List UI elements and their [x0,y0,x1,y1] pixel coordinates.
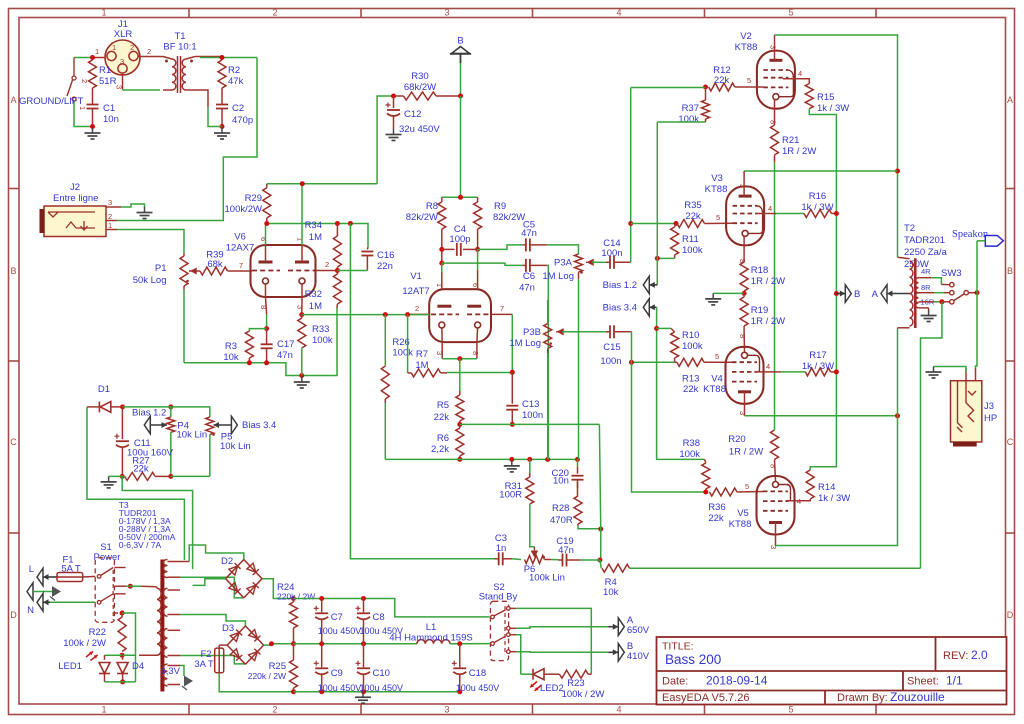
svg-text:1M Log: 1M Log [542,271,574,282]
svg-text:0-6,3V / 7A: 0-6,3V / 7A [119,540,162,550]
svg-text:8: 8 [738,334,747,338]
svg-text:Zouzouille: Zouzouille [890,690,945,704]
svg-text:Speakon: Speakon [952,229,989,240]
svg-text:N: N [27,605,34,616]
svg-text:2: 2 [147,47,151,56]
svg-text:R19: R19 [751,305,768,316]
svg-text:XLR: XLR [114,29,133,40]
svg-text:T1: T1 [174,31,185,42]
svg-text:V6: V6 [234,232,246,243]
svg-text:R32: R32 [305,289,322,300]
svg-text:Bias 3.4: Bias 3.4 [242,420,276,431]
svg-text:470R: 470R [550,515,573,526]
svg-text:100u 450V: 100u 450V [318,626,362,636]
svg-text:A: A [872,289,879,300]
svg-text:47n: 47n [519,283,535,294]
svg-text:C17: C17 [277,339,294,350]
svg-text:12AX7: 12AX7 [226,243,255,254]
svg-text:100R: 100R [499,490,522,501]
svg-text:B: B [854,289,860,300]
svg-text:8R: 8R [921,283,931,292]
svg-text:TADR201: TADR201 [904,235,945,246]
svg-text:68k: 68k [207,259,223,270]
svg-text:D1: D1 [98,384,110,395]
svg-text:R2: R2 [228,65,240,76]
svg-text:L1: L1 [426,622,437,633]
svg-text:2,2k: 2,2k [431,444,449,455]
svg-text:100k: 100k [392,348,413,359]
svg-text:6,3V: 6,3V [160,666,180,677]
svg-text:100u 450V: 100u 450V [456,683,500,693]
svg-text:V4: V4 [711,374,723,385]
svg-text:HP: HP [984,413,997,424]
svg-text:R13: R13 [682,374,699,385]
svg-text:D3: D3 [222,623,234,634]
svg-text:R37: R37 [682,103,699,114]
svg-text:8: 8 [769,120,778,124]
svg-text:R21: R21 [782,135,799,146]
svg-text:22k: 22k [434,412,450,423]
svg-text:1k / 3W: 1k / 3W [801,202,833,213]
svg-text:100u 450V: 100u 450V [360,626,404,636]
svg-text:1: 1 [101,8,106,18]
svg-text:410V: 410V [627,651,650,662]
svg-text:D2: D2 [221,556,233,567]
svg-text:3: 3 [444,705,449,715]
svg-text:A: A [1007,95,1013,105]
svg-text:3: 3 [296,305,305,309]
svg-text:C7: C7 [331,612,343,623]
svg-text:D: D [1007,610,1014,620]
svg-text:R17: R17 [809,350,826,361]
svg-text:L: L [29,564,34,575]
svg-text:R33: R33 [312,324,329,335]
svg-text:C10: C10 [373,668,390,679]
svg-text:R1: R1 [99,65,111,76]
svg-text:R35: R35 [684,200,701,211]
svg-text:R22: R22 [89,627,106,638]
svg-text:10n: 10n [553,476,569,487]
svg-text:KT88: KT88 [735,42,758,53]
svg-text:100k / 2W: 100k / 2W [63,638,106,649]
svg-text:5A T: 5A T [61,564,81,575]
svg-text:C9: C9 [331,668,343,679]
svg-text:4: 4 [798,69,802,78]
svg-text:P3A: P3A [554,258,573,269]
svg-text:Bias 3.4: Bias 3.4 [603,303,637,314]
svg-text:7: 7 [239,261,243,270]
svg-text:10k Lin: 10k Lin [220,441,251,452]
svg-text:V3: V3 [711,173,723,184]
svg-text:5: 5 [716,213,720,222]
svg-text:R28: R28 [552,503,569,514]
svg-text:8: 8 [471,351,480,355]
svg-text:1: 1 [101,705,106,715]
svg-text:2: 2 [108,212,112,221]
svg-text:47k: 47k [228,76,244,87]
svg-text:2: 2 [272,8,277,18]
svg-text:LED1: LED1 [58,661,82,672]
svg-text:100u 450V: 100u 450V [360,683,404,693]
svg-text:1R / 2W: 1R / 2W [751,316,785,327]
svg-text:2: 2 [272,705,277,715]
svg-text:22n: 22n [377,261,393,272]
svg-text:1k / 3W: 1k / 3W [802,361,834,372]
svg-text:10n: 10n [103,114,119,125]
svg-text:2.0: 2.0 [971,648,988,662]
svg-text:10k: 10k [223,352,239,363]
svg-text:4: 4 [616,705,621,715]
svg-text:C13: C13 [522,399,539,410]
svg-text:B: B [1007,266,1013,276]
svg-text:100k/2W: 100k/2W [225,204,263,215]
svg-text:R16: R16 [809,191,826,202]
svg-text:3: 3 [769,45,778,49]
svg-text:R20: R20 [728,434,745,445]
svg-text:100n: 100n [601,248,622,259]
svg-text:12AT7: 12AT7 [402,286,429,297]
svg-text:T2: T2 [904,223,915,234]
svg-text:220k / 2W: 220k / 2W [248,671,286,681]
svg-text:1M: 1M [309,232,322,243]
svg-text:47n: 47n [521,228,537,239]
svg-text:C6: C6 [523,271,535,282]
svg-text:R3: R3 [225,341,237,352]
svg-text:J2: J2 [70,182,80,193]
svg-text:1R / 2W: 1R / 2W [782,146,816,157]
svg-text:A: A [10,95,16,105]
svg-text:82k/2W: 82k/2W [493,212,525,223]
svg-text:5: 5 [788,8,793,18]
svg-text:R9: R9 [494,201,506,212]
svg-text:TITLE:: TITLE: [662,641,694,653]
svg-text:KT88: KT88 [705,184,728,195]
svg-text:47n: 47n [277,350,293,361]
svg-text:4: 4 [616,8,621,18]
svg-text:R15: R15 [817,92,834,103]
svg-text:R6: R6 [437,433,449,444]
svg-text:10k: 10k [603,587,619,598]
svg-text:1: 1 [435,283,444,287]
svg-text:Sheet:: Sheet: [907,676,939,688]
svg-text:EasyEDA V5.7.26: EasyEDA V5.7.26 [662,692,749,704]
svg-text:C: C [1007,437,1014,447]
svg-text:100n: 100n [522,410,543,421]
svg-text:470p: 470p [232,115,253,126]
svg-text:650V: 650V [627,625,650,636]
svg-text:3: 3 [738,411,747,415]
svg-text:5: 5 [788,705,793,715]
svg-text:1M: 1M [415,360,428,371]
svg-text:B: B [457,36,463,47]
svg-text:V1: V1 [410,271,422,282]
svg-text:BF 10:1: BF 10:1 [163,42,196,53]
svg-text:10k Lin: 10k Lin [177,430,208,441]
svg-text:Date:: Date: [662,676,688,688]
svg-text:8: 8 [769,464,778,468]
svg-text:C8: C8 [373,612,385,623]
svg-text:D: D [10,610,17,620]
svg-text:Entre ligne: Entre ligne [53,193,98,204]
svg-text:1M Log: 1M Log [509,338,541,349]
svg-text:R38: R38 [683,438,700,449]
svg-text:KT88: KT88 [729,519,752,530]
svg-text:R18: R18 [751,265,768,276]
svg-text:2: 2 [130,43,134,52]
svg-text:3: 3 [108,198,112,207]
svg-text:C12: C12 [404,109,421,120]
svg-text:P3B: P3B [523,327,541,338]
svg-text:1: 1 [296,237,305,241]
svg-text:5: 5 [747,76,751,85]
svg-text:1k / 3W: 1k / 3W [817,103,849,114]
svg-text:C1: C1 [103,103,115,114]
svg-text:R5: R5 [437,400,449,411]
svg-text:82k/2W: 82k/2W [406,212,438,223]
svg-text:4: 4 [766,362,770,371]
svg-text:1: 1 [112,43,116,52]
svg-text:3A T: 3A T [194,659,214,670]
svg-text:1R / 2W: 1R / 2W [729,447,763,458]
svg-text:2018-09-14: 2018-09-14 [706,674,768,688]
svg-text:100u 450V: 100u 450V [318,683,362,693]
svg-text:R36: R36 [708,502,725,513]
svg-text:C18: C18 [469,668,486,679]
svg-text:R8: R8 [426,201,438,212]
svg-text:C15: C15 [603,342,620,353]
svg-text:5: 5 [745,482,749,491]
svg-text:1: 1 [108,221,112,230]
svg-text:1k / 3W: 1k / 3W [818,493,850,504]
svg-text:1n: 1n [496,543,507,554]
svg-text:REV:: REV: [943,650,968,662]
svg-text:3: 3 [444,8,449,18]
svg-text:1M: 1M [309,301,322,312]
svg-text:6: 6 [471,283,480,287]
svg-text:V2: V2 [740,31,752,42]
svg-text:Bass 200: Bass 200 [665,652,721,667]
svg-text:6: 6 [259,237,268,241]
svg-text:D4: D4 [132,661,144,672]
svg-text:2250 Za/a: 2250 Za/a [904,247,947,258]
svg-text:5: 5 [715,352,719,361]
svg-text:Drawn By:: Drawn By: [837,692,888,704]
svg-text:100k: 100k [312,335,333,346]
svg-text:22k: 22k [708,513,724,524]
svg-text:22k: 22k [685,211,701,222]
svg-text:R23: R23 [567,678,584,689]
svg-text:R14: R14 [818,482,835,493]
svg-text:100p: 100p [449,234,470,245]
svg-text:3: 3 [738,184,747,188]
svg-text:4R: 4R [921,267,931,276]
svg-text:2: 2 [415,304,419,313]
svg-text:J3: J3 [984,401,994,412]
svg-text:C: C [10,437,17,447]
svg-text:C2: C2 [232,103,244,114]
svg-text:3: 3 [120,57,124,66]
svg-text:100k / 2W: 100k / 2W [562,689,605,700]
svg-text:100k: 100k [682,341,703,352]
svg-text:B: B [10,266,16,276]
svg-text:C16: C16 [377,250,394,261]
svg-text:P1: P1 [155,263,167,274]
svg-text:R10: R10 [682,330,699,341]
svg-text:100n: 100n [600,356,621,367]
svg-text:R7: R7 [416,349,428,360]
svg-text:68k/2W: 68k/2W [404,82,436,93]
svg-text:22k: 22k [683,384,699,395]
svg-text:V5: V5 [737,508,749,519]
svg-text:2: 2 [325,260,329,269]
svg-text:220k / 2W: 220k / 2W [277,592,315,602]
svg-text:7: 7 [500,304,504,313]
svg-text:2: 2 [80,79,89,83]
svg-text:100k: 100k [678,114,699,125]
svg-text:LED2: LED2 [540,683,564,694]
svg-text:KT88: KT88 [703,384,726,395]
svg-text:51R: 51R [99,76,117,87]
svg-text:50k Log: 50k Log [133,275,167,286]
svg-text:22k: 22k [714,75,730,86]
svg-text:100k: 100k [682,245,703,256]
svg-text:32u 450V: 32u 450V [399,124,440,135]
svg-text:R29: R29 [245,193,262,204]
svg-text:1: 1 [95,47,99,56]
svg-text:100k Lin: 100k Lin [529,573,565,584]
svg-text:100k: 100k [679,449,700,460]
svg-text:47n: 47n [558,545,574,556]
svg-text:SW3: SW3 [941,268,962,279]
svg-text:1R / 2W: 1R / 2W [751,276,785,287]
svg-text:R34: R34 [305,220,322,231]
svg-text:GROUND/LIFT: GROUND/LIFT [19,96,84,107]
svg-text:4: 4 [768,204,772,213]
svg-text:22k: 22k [133,464,149,475]
svg-text:1/1: 1/1 [946,674,963,688]
svg-text:Bias 1.2: Bias 1.2 [603,280,637,291]
svg-text:R11: R11 [682,234,699,245]
svg-text:R30: R30 [411,71,428,82]
